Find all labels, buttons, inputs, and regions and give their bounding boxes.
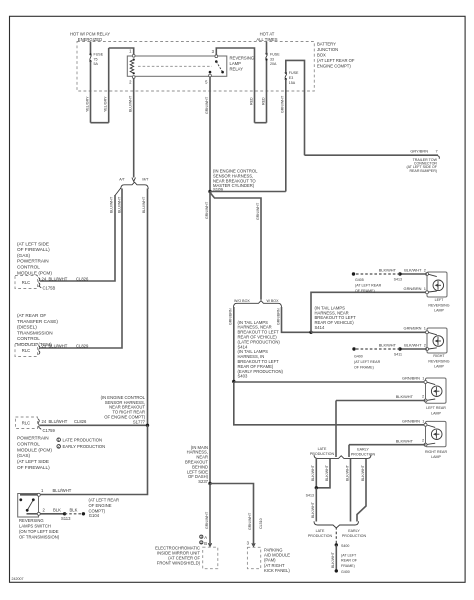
wire A/T branch to TCM (diesel) bbox=[40, 189, 122, 349]
svg-text:1: 1 bbox=[424, 286, 426, 291]
svg-text:2: 2 bbox=[422, 438, 424, 443]
wire S403 to left rear lamp bbox=[234, 381, 426, 383]
note late/early production legend bbox=[57, 437, 105, 449]
svg-text:GRN/WHT: GRN/WHT bbox=[281, 95, 285, 113]
splice S109 bbox=[208, 169, 258, 194]
svg-text:5A: 5A bbox=[94, 62, 99, 66]
svg-text:G405: G405 bbox=[355, 278, 364, 282]
svg-text:EARLY: EARLY bbox=[348, 529, 360, 533]
svg-text:LAMP: LAMP bbox=[431, 455, 441, 459]
wire yel/gry return leg bbox=[108, 48, 110, 123]
svg-text:1: 1 bbox=[422, 376, 424, 381]
wire late blk/wht a bbox=[315, 459, 317, 488]
wire S400 to G400 bbox=[335, 545, 337, 571]
svg-text:HOT W/ PCM RELAY: HOT W/ PCM RELAY bbox=[70, 31, 110, 36]
wire early blk/wht a bbox=[350, 459, 352, 522]
svg-text:LAMP: LAMP bbox=[230, 61, 242, 66]
svg-text:GRY/BRN: GRY/BRN bbox=[410, 149, 428, 154]
svg-text:(AT LEFT REAR: (AT LEFT REAR bbox=[355, 284, 382, 288]
splice S411 bbox=[394, 347, 402, 356]
svg-text:S237: S237 bbox=[198, 479, 208, 484]
svg-text:CL829: CL829 bbox=[76, 343, 89, 348]
svg-text:23: 23 bbox=[42, 343, 47, 348]
wire S411 to G400 (dashed) bbox=[354, 343, 400, 349]
wire S237 down to mirror bbox=[209, 484, 211, 546]
svg-text:REVERSING: REVERSING bbox=[428, 359, 449, 363]
svg-text:OF FIREWALL): OF FIREWALL) bbox=[17, 465, 50, 470]
reversing lamp relay U1 bbox=[127, 56, 254, 77]
wire late blk/wht b bbox=[316, 459, 330, 488]
svg-text:CONTROL: CONTROL bbox=[17, 265, 40, 270]
node HOT W/ PCM RELAY ENERGIZED bbox=[70, 31, 110, 42]
wire w box branch to S414 bbox=[282, 307, 312, 332]
wire right rear ground down bbox=[348, 445, 350, 457]
node W/O BOX - W BOX split bbox=[234, 299, 282, 308]
svg-text:S1777: S1777 bbox=[133, 419, 146, 424]
splice S403 / S414 texts (left column) bbox=[232, 320, 283, 383]
svg-text:BLK/WHT: BLK/WHT bbox=[345, 464, 349, 481]
svg-text:REVERSING: REVERSING bbox=[19, 518, 44, 523]
svg-text:BLK/WHT: BLK/WHT bbox=[361, 464, 365, 481]
svg-text:1: 1 bbox=[424, 326, 426, 331]
svg-text:GRN/BRN: GRN/BRN bbox=[402, 418, 420, 423]
svg-text:OF TRANSMISSION): OF TRANSMISSION) bbox=[19, 535, 60, 540]
svg-text:LATE PRODUCTION: LATE PRODUCTION bbox=[63, 437, 102, 442]
svg-text:2: 2 bbox=[422, 394, 424, 399]
svg-text:M/T: M/T bbox=[142, 178, 149, 182]
wire yel/gry U-loop bottom bbox=[91, 122, 109, 124]
relay switch contacts bbox=[205, 49, 224, 84]
svg-text:BLK/WHT: BLK/WHT bbox=[396, 394, 414, 399]
svg-text:CL826: CL826 bbox=[76, 276, 89, 281]
svg-text:(AT LEFT SIDE: (AT LEFT SIDE bbox=[17, 459, 49, 464]
electrochromatic inside mirror unit bbox=[155, 534, 218, 569]
label GRN/BRN 1 leftrev bbox=[404, 286, 426, 291]
node A/T M/T split bbox=[119, 178, 149, 190]
svg-text:LAMPS SWITCH: LAMPS SWITCH bbox=[19, 523, 51, 528]
svg-text:EARLY PRODUCTION: EARLY PRODUCTION bbox=[63, 444, 106, 449]
transmission control module TCM (diesel) bbox=[15, 313, 89, 357]
wire M/T branch down bbox=[147, 189, 149, 426]
wire S414 to right reversing lamp bbox=[311, 331, 427, 333]
wire fuseE3 leg to S109 bbox=[210, 191, 286, 193]
svg-text:LEFT: LEFT bbox=[435, 298, 445, 302]
svg-text:MODULE (TCM): MODULE (TCM) bbox=[17, 342, 52, 347]
wire S403 down and to right rear lamp bbox=[234, 382, 426, 425]
splice S237 bbox=[185, 445, 212, 485]
svg-text:POWERTRAIN: POWERTRAIN bbox=[17, 436, 49, 441]
svg-text:24: 24 bbox=[42, 419, 47, 424]
svg-text:BLK: BLK bbox=[70, 507, 78, 512]
wire right rear ground pin2 bbox=[349, 438, 426, 445]
svg-text:75: 75 bbox=[94, 57, 98, 61]
right reversing lamp bbox=[426, 328, 450, 368]
svg-text:GRN/WHT: GRN/WHT bbox=[205, 511, 209, 529]
svg-text:RLC: RLC bbox=[22, 348, 30, 353]
svg-text:REVERSING: REVERSING bbox=[428, 303, 449, 307]
svg-text:(AT LEFT REAR: (AT LEFT REAR bbox=[89, 498, 119, 503]
svg-text:(AT LEFT REAR OF: (AT LEFT REAR OF bbox=[317, 58, 355, 63]
svg-text:BLU/WHT: BLU/WHT bbox=[49, 276, 68, 281]
wire relay pin3 to fuse33 leg bbox=[216, 48, 254, 123]
svg-text:BLU/WHT: BLU/WHT bbox=[117, 196, 121, 213]
wire to trailer tow bbox=[305, 154, 439, 156]
svg-text:BLK/WHT: BLK/WHT bbox=[404, 343, 422, 348]
svg-text:PRODUCTION: PRODUCTION bbox=[351, 453, 376, 457]
svg-text:S413: S413 bbox=[394, 278, 402, 282]
svg-text:RIGHT REAR: RIGHT REAR bbox=[425, 450, 448, 454]
relay coil bbox=[129, 49, 135, 85]
svg-text:FRONT WINDSHIELD): FRONT WINDSHIELD) bbox=[157, 561, 201, 566]
left rear lamp bbox=[424, 378, 446, 415]
parking aid module PAM bbox=[247, 541, 291, 573]
svg-text:YEL/GRY: YEL/GRY bbox=[104, 96, 108, 112]
battery junction box (dashed) bbox=[77, 42, 355, 92]
fuse E3 15A bbox=[285, 71, 299, 85]
svg-text:33: 33 bbox=[270, 57, 274, 61]
svg-text:GRN/WHT: GRN/WHT bbox=[205, 201, 209, 219]
svg-text:BLU/WHT: BLU/WHT bbox=[49, 419, 68, 424]
svg-text:BLK/WHT: BLK/WHT bbox=[379, 268, 397, 273]
svg-text:BLK/WHT: BLK/WHT bbox=[379, 343, 397, 348]
svg-text:B: B bbox=[204, 541, 207, 546]
svg-text:CONTROL: CONTROL bbox=[17, 441, 40, 446]
svg-text:G104: G104 bbox=[89, 513, 100, 518]
svg-text:MODULE (PCM): MODULE (PCM) bbox=[17, 447, 52, 452]
wire to relay coil pin 1 bbox=[109, 48, 134, 55]
fuse 75 5A bbox=[89, 42, 103, 67]
svg-text:CL826: CL826 bbox=[74, 419, 87, 424]
svg-text:S400: S400 bbox=[341, 544, 349, 548]
wire S413 down bbox=[315, 488, 317, 522]
wire merge to S400 (dashed) bbox=[335, 527, 337, 545]
wire red U-bottom bbox=[255, 122, 267, 124]
svg-text:BATTERY: BATTERY bbox=[317, 42, 336, 47]
splice S400 bbox=[335, 543, 350, 548]
svg-text:(AT LEFT: (AT LEFT bbox=[341, 553, 357, 557]
svg-text:BLK/WHT: BLK/WHT bbox=[311, 464, 315, 481]
svg-text:C1759: C1759 bbox=[43, 428, 56, 433]
svg-text:(AT LEFT SIDE: (AT LEFT SIDE bbox=[17, 241, 49, 246]
wire relay pin5 down to S109 bbox=[209, 77, 211, 192]
wire PCM lower to S1777 bbox=[40, 424, 148, 426]
svg-text:G400: G400 bbox=[354, 355, 363, 359]
ground G405 bbox=[352, 272, 382, 293]
svg-text:7: 7 bbox=[436, 149, 438, 154]
svg-text:REAR OF: REAR OF bbox=[341, 559, 358, 563]
svg-text:(AT LEFT REAR: (AT LEFT REAR bbox=[354, 360, 381, 364]
wire A/T branch to PCM (gas) bbox=[115, 188, 121, 196]
svg-text:FUSE: FUSE bbox=[270, 53, 280, 57]
svg-text:S113: S113 bbox=[61, 516, 71, 521]
wire switch pin2 to S113 bbox=[40, 507, 71, 521]
svg-text:BLK/WHT: BLK/WHT bbox=[325, 464, 329, 481]
svg-text:LAMP: LAMP bbox=[431, 411, 441, 415]
svg-text:KICK PANEL): KICK PANEL) bbox=[264, 568, 290, 573]
svg-text:PRODUCTION: PRODUCTION bbox=[308, 534, 333, 538]
svg-text:TRANSMISSION: TRANSMISSION bbox=[17, 330, 53, 335]
svg-text:GRN/BRN: GRN/BRN bbox=[404, 326, 422, 331]
svg-text:2: 2 bbox=[424, 343, 426, 348]
wire S109 step to center run bbox=[210, 193, 261, 300]
wire E3 left leg down bbox=[285, 79, 287, 191]
svg-text:EARLY: EARLY bbox=[357, 448, 369, 452]
wire S113 to G104 (dashed) bbox=[65, 507, 84, 514]
splice S413 top bbox=[394, 272, 402, 281]
svg-text:PRODUCTION: PRODUCTION bbox=[342, 534, 367, 538]
ground G400 main bbox=[335, 553, 358, 574]
trailer tow connector bbox=[406, 149, 437, 173]
svg-text:GRN/BRN: GRN/BRN bbox=[276, 308, 280, 325]
svg-text:RED: RED bbox=[261, 97, 265, 105]
svg-text:S403: S403 bbox=[238, 374, 248, 379]
svg-text:RLC: RLC bbox=[22, 280, 30, 285]
svg-text:(GAS): (GAS) bbox=[17, 453, 30, 458]
right rear lamp bbox=[424, 421, 447, 459]
ground G400 right reversing bbox=[352, 347, 380, 369]
left reversing lamp bbox=[426, 272, 450, 312]
svg-text:MODULE (PCM): MODULE (PCM) bbox=[17, 270, 52, 275]
powertrain control module PCM (gas) bbox=[15, 241, 89, 290]
svg-text:LEFT REAR: LEFT REAR bbox=[426, 406, 446, 410]
wire left rear ground pin2 bbox=[336, 394, 426, 401]
svg-text:CONTROL: CONTROL bbox=[17, 336, 40, 341]
svg-text:FUSE: FUSE bbox=[94, 53, 104, 57]
svg-text:BLU/WHT: BLU/WHT bbox=[109, 196, 113, 213]
wire w/o box branch down bbox=[233, 307, 235, 382]
label GRN/BRN 1 leftrear bbox=[402, 376, 424, 381]
svg-text:HOT AT: HOT AT bbox=[260, 31, 275, 36]
svg-text:ENERGIZED: ENERGIZED bbox=[78, 37, 102, 42]
svg-text:OF FIREWALL): OF FIREWALL) bbox=[17, 247, 50, 252]
node gather brace late/early bbox=[310, 447, 376, 458]
svg-text:RELAY: RELAY bbox=[230, 67, 244, 72]
svg-text:BLU/WHT: BLU/WHT bbox=[142, 196, 146, 213]
svg-text:A/T: A/T bbox=[119, 178, 125, 182]
svg-text:W/O BOX: W/O BOX bbox=[234, 299, 250, 303]
svg-text:W BOX: W BOX bbox=[267, 299, 280, 303]
label 1 BLU/WHT switch wire bbox=[41, 488, 72, 493]
svg-text:(AT REAR OF: (AT REAR OF bbox=[17, 313, 46, 318]
wire S414 up to left reversing lamp bbox=[311, 292, 427, 332]
svg-text:242007: 242007 bbox=[12, 577, 24, 581]
svg-text:BLU/WHT: BLU/WHT bbox=[129, 95, 133, 112]
wire right reversing ground pin2 bbox=[400, 343, 427, 349]
ground G104 bbox=[82, 498, 119, 518]
svg-text:(DIESEL): (DIESEL) bbox=[17, 325, 37, 330]
wire S1777 down to switch bbox=[40, 425, 148, 494]
svg-text:RIGHT: RIGHT bbox=[433, 354, 445, 358]
splice S1777 bbox=[101, 395, 150, 427]
svg-text:(GAS): (GAS) bbox=[17, 253, 30, 258]
wire fuse33 leg bbox=[266, 60, 268, 123]
wire S237 to parking aid module bbox=[210, 484, 254, 546]
svg-text:REAR BUMPER): REAR BUMPER) bbox=[409, 169, 437, 173]
svg-text:BLK/WHT: BLK/WHT bbox=[331, 551, 335, 568]
svg-text:GRN/WHT: GRN/WHT bbox=[256, 202, 260, 220]
svg-text:1: 1 bbox=[422, 418, 424, 423]
svg-text:OF ENGINE: OF ENGINE bbox=[89, 503, 112, 508]
svg-text:YEL/GRY: YEL/GRY bbox=[85, 96, 89, 112]
svg-text:BLK/WHT: BLK/WHT bbox=[311, 501, 315, 518]
svg-text:LATE: LATE bbox=[316, 529, 325, 533]
svg-text:GRN/BRN: GRN/BRN bbox=[402, 376, 420, 381]
svg-text:A: A bbox=[204, 535, 207, 540]
svg-text:G400: G400 bbox=[341, 570, 350, 574]
svg-text:BLK: BLK bbox=[53, 507, 61, 512]
svg-text:BLK/WHT: BLK/WHT bbox=[404, 268, 422, 273]
svg-text:20A: 20A bbox=[270, 62, 277, 66]
svg-text:OF FRAME): OF FRAME) bbox=[355, 289, 375, 293]
svg-text:TRANSFER CASE): TRANSFER CASE) bbox=[17, 319, 58, 324]
svg-text:LATE: LATE bbox=[318, 447, 327, 451]
wire E3 inverted-U top bbox=[286, 60, 305, 155]
wire left reversing ground pin2 bbox=[400, 268, 427, 274]
svg-text:LAMP: LAMP bbox=[434, 364, 444, 368]
svg-text:CL510: CL510 bbox=[259, 518, 263, 529]
splice S414 (tail lamps harness) bbox=[309, 305, 356, 334]
wire S413 to G405 (dashed) bbox=[354, 268, 401, 274]
fuse 33 20A bbox=[265, 42, 280, 67]
powertrain control module PCM lower bbox=[16, 417, 88, 470]
svg-text:RED: RED bbox=[249, 97, 253, 105]
svg-text:FUSE: FUSE bbox=[289, 71, 299, 75]
svg-text:GRN/WHT: GRN/WHT bbox=[205, 96, 209, 114]
node HOT AT ALL TIMES bbox=[256, 31, 277, 42]
wire left rear ground down bbox=[335, 401, 337, 458]
label GRN/BRN 1 rightrev bbox=[404, 326, 426, 331]
svg-text:BLK/WHT: BLK/WHT bbox=[396, 438, 414, 443]
svg-text:S411: S411 bbox=[394, 353, 402, 357]
wire early blk/wht b bbox=[357, 459, 366, 522]
svg-text:2: 2 bbox=[424, 268, 426, 273]
svg-text:15A: 15A bbox=[289, 81, 296, 85]
svg-text:S413: S413 bbox=[306, 493, 314, 497]
svg-text:E3: E3 bbox=[289, 76, 293, 80]
svg-text:24: 24 bbox=[42, 276, 47, 281]
splice S413 bottom bbox=[306, 486, 318, 497]
svg-text:RLC: RLC bbox=[22, 421, 30, 426]
node merge brace bottom bbox=[308, 521, 367, 538]
svg-text:FRAME): FRAME) bbox=[341, 564, 355, 568]
svg-text:C175B: C175B bbox=[43, 286, 56, 291]
svg-text:ALL TIMES: ALL TIMES bbox=[256, 37, 277, 42]
svg-text:BOX: BOX bbox=[317, 53, 326, 58]
svg-text:JUNCTION: JUNCTION bbox=[317, 47, 338, 52]
svg-text:ENGINE COMPT): ENGINE COMPT) bbox=[317, 64, 351, 69]
wire S109 down to S237 bbox=[209, 192, 211, 484]
svg-text:GRN/WHT: GRN/WHT bbox=[248, 512, 252, 530]
svg-text:GRN/BRN: GRN/BRN bbox=[404, 286, 422, 291]
svg-text:LAMP: LAMP bbox=[434, 308, 444, 312]
reversing lamps switch bbox=[18, 493, 60, 539]
svg-text:(ON TOP LEFT SIDE: (ON TOP LEFT SIDE bbox=[19, 529, 59, 534]
svg-text:BLU/WHT: BLU/WHT bbox=[49, 343, 68, 348]
svg-text:OF FRAME): OF FRAME) bbox=[354, 365, 374, 369]
svg-text:POWERTRAIN: POWERTRAIN bbox=[17, 259, 49, 264]
wire fuse75 to loop bbox=[90, 61, 92, 122]
svg-text:S414: S414 bbox=[315, 325, 325, 330]
label GRN/BRN 1 rightrear bbox=[402, 418, 424, 423]
wire relay coil pin2 down bbox=[133, 78, 135, 177]
svg-text:REVERSING: REVERSING bbox=[230, 56, 255, 61]
svg-text:GRN/BRN: GRN/BRN bbox=[229, 308, 233, 325]
svg-text:BLU/WHT: BLU/WHT bbox=[53, 488, 72, 493]
